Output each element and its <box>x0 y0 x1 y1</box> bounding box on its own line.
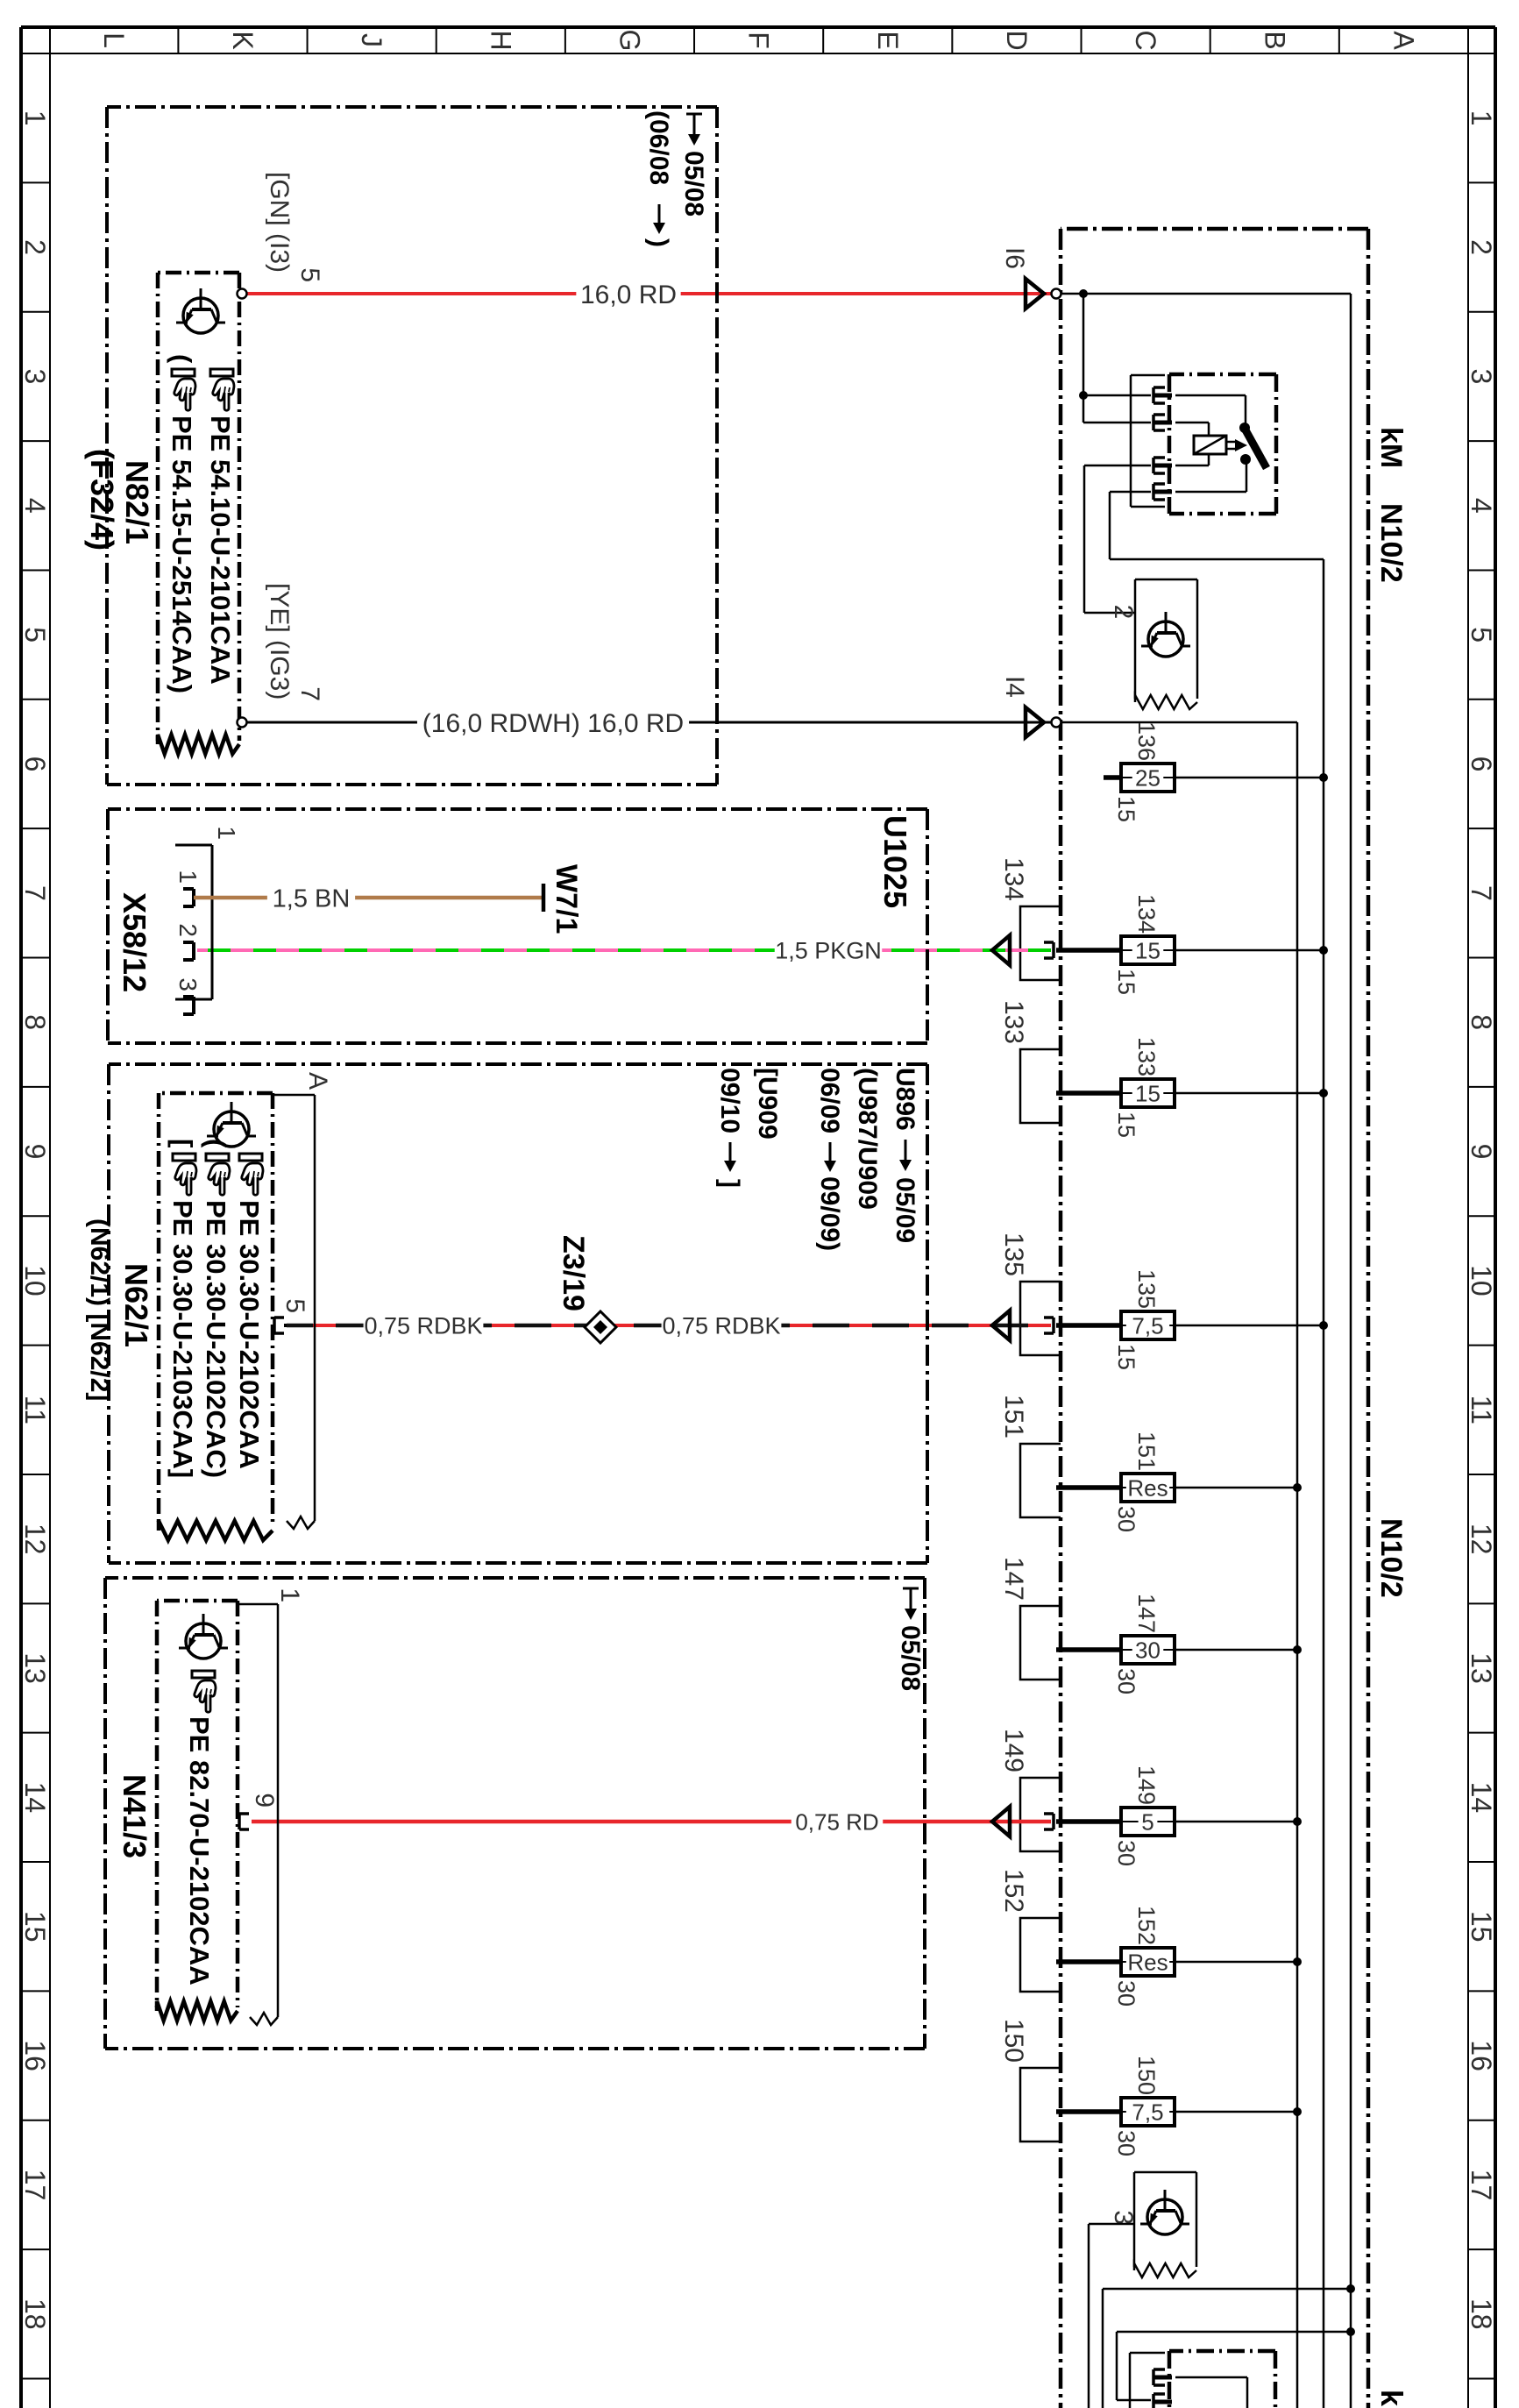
svg-text:(16,0 RDWH) 16,0 RD: (16,0 RDWH) 16,0 RD <box>422 709 684 738</box>
svg-text:30: 30 <box>1113 1668 1139 1694</box>
svg-text:5: 5 <box>1141 1808 1153 1835</box>
svg-text:[U909: [U909 <box>753 1068 782 1140</box>
svg-text:A: A <box>303 1072 332 1090</box>
svg-text:149: 149 <box>1133 1765 1160 1805</box>
svg-text:4: 4 <box>19 498 51 514</box>
svg-text:U1025: U1025 <box>877 815 913 908</box>
svg-text:05/09: 05/09 <box>891 1177 919 1243</box>
svg-text:PE 30.30-U-2102CAA: PE 30.30-U-2102CAA <box>234 1200 265 1469</box>
svg-text:15: 15 <box>1466 1911 1497 1943</box>
svg-text:6: 6 <box>1466 756 1497 772</box>
svg-text:15: 15 <box>1113 1344 1139 1370</box>
svg-text:30: 30 <box>1113 1840 1139 1866</box>
svg-text:PE 30.30-U-2102CAC): PE 30.30-U-2102CAC) <box>201 1200 231 1478</box>
svg-text:1: 1 <box>1466 110 1497 126</box>
svg-text:[YE] (IG3): [YE] (IG3) <box>265 583 294 700</box>
svg-text:14: 14 <box>1466 1782 1497 1814</box>
svg-text:7: 7 <box>295 686 324 701</box>
svg-text:149: 149 <box>999 1729 1028 1772</box>
svg-text:G: G <box>614 30 645 52</box>
svg-text:152: 152 <box>1133 1906 1160 1945</box>
svg-text:5: 5 <box>1466 627 1497 643</box>
svg-text:15: 15 <box>1113 796 1139 822</box>
svg-text:[: [ <box>167 1139 198 1147</box>
svg-text:0,75 RDBK: 0,75 RDBK <box>662 1313 780 1339</box>
svg-text:1: 1 <box>19 110 51 126</box>
svg-text:15: 15 <box>1113 969 1139 995</box>
svg-text:2: 2 <box>174 923 202 937</box>
svg-text:150: 150 <box>1133 2056 1160 2095</box>
svg-text:D: D <box>1001 30 1033 50</box>
svg-text:11: 11 <box>1466 1396 1497 1424</box>
svg-text:2: 2 <box>19 239 51 255</box>
svg-text:18: 18 <box>19 2298 51 2330</box>
svg-text:2: 2 <box>1109 605 1138 620</box>
svg-text:K: K <box>227 31 259 49</box>
svg-text:J: J <box>356 33 387 47</box>
svg-text:6: 6 <box>19 756 51 772</box>
svg-text:1,5 PKGN: 1,5 PKGN <box>775 938 882 964</box>
svg-text:L: L <box>98 32 130 48</box>
svg-text:Res: Res <box>1127 1949 1168 1975</box>
svg-text:5: 5 <box>295 267 324 282</box>
svg-text:09/10: 09/10 <box>715 1068 744 1133</box>
svg-text:15: 15 <box>1113 1112 1139 1138</box>
svg-text:134: 134 <box>1133 894 1160 934</box>
svg-text:PE 54.10-U-2101CAA: PE 54.10-U-2101CAA <box>205 416 236 685</box>
svg-text:8: 8 <box>1466 1014 1497 1030</box>
svg-text:151: 151 <box>999 1395 1028 1438</box>
svg-text:16: 16 <box>19 2040 51 2071</box>
svg-text:18: 18 <box>1466 2298 1497 2330</box>
svg-text:12: 12 <box>1466 1524 1497 1555</box>
svg-text:151: 151 <box>1133 1431 1160 1471</box>
svg-text:05/08: 05/08 <box>896 1625 925 1691</box>
svg-text:5: 5 <box>280 1298 309 1313</box>
svg-text:(U987/U909: (U987/U909 <box>853 1068 882 1210</box>
svg-text:]: ] <box>715 1179 744 1188</box>
svg-text:W7/1: W7/1 <box>550 864 583 934</box>
svg-text:X58/12: X58/12 <box>117 892 153 992</box>
svg-text:1,5 BN: 1,5 BN <box>273 884 351 913</box>
svg-text:4: 4 <box>1466 498 1497 514</box>
svg-text:N82/1: N82/1 <box>119 460 155 544</box>
svg-text:9: 9 <box>1466 1144 1497 1160</box>
svg-text:13: 13 <box>1466 1652 1497 1684</box>
svg-text:136: 136 <box>1133 721 1160 761</box>
svg-text:10: 10 <box>1466 1265 1497 1296</box>
svg-text:11: 11 <box>19 1396 51 1424</box>
svg-text:147: 147 <box>999 1557 1028 1601</box>
svg-text:kM: kM <box>1374 2390 1408 2408</box>
svg-text:06/09: 06/09 <box>815 1068 844 1133</box>
svg-text:C: C <box>1130 30 1161 50</box>
svg-text:8: 8 <box>19 1014 51 1030</box>
svg-text:(N62/1) [N62/2]: (N62/1) [N62/2] <box>85 1218 114 1401</box>
svg-text:09/09): 09/09) <box>815 1176 844 1251</box>
svg-text:B: B <box>1259 31 1290 49</box>
svg-text:PE 54.15-U-2514CAA): PE 54.15-U-2514CAA) <box>167 416 197 693</box>
svg-text:E: E <box>872 31 904 49</box>
svg-text:147: 147 <box>1133 1594 1160 1633</box>
svg-text:0,75 RD: 0,75 RD <box>795 1808 878 1835</box>
svg-text:PE 82.70-U-2102CAA: PE 82.70-U-2102CAA <box>184 1716 215 1985</box>
svg-text:[GN] (I3): [GN] (I3) <box>265 172 294 273</box>
svg-text:15: 15 <box>19 1911 51 1943</box>
svg-text:15: 15 <box>1135 937 1161 963</box>
svg-text:134: 134 <box>999 857 1028 901</box>
svg-text:H: H <box>485 30 516 50</box>
svg-text:I4: I4 <box>1000 676 1029 698</box>
svg-text:(06/08: (06/08 <box>644 110 673 185</box>
svg-text:14: 14 <box>19 1782 51 1814</box>
svg-text:Res: Res <box>1127 1474 1168 1501</box>
svg-text:(: ( <box>167 354 197 364</box>
svg-text:A: A <box>1388 31 1419 50</box>
svg-text:N41/3: N41/3 <box>117 1774 153 1858</box>
svg-text:N62/1: N62/1 <box>118 1263 154 1347</box>
svg-text:1: 1 <box>213 826 240 840</box>
svg-text:135: 135 <box>1133 1269 1160 1309</box>
svg-text:Z3/19: Z3/19 <box>557 1235 590 1311</box>
svg-text:133: 133 <box>1133 1037 1160 1076</box>
svg-text:): ) <box>644 238 673 247</box>
svg-text:152: 152 <box>999 1869 1028 1913</box>
svg-text:3: 3 <box>1109 2210 1138 2225</box>
svg-text:30: 30 <box>1135 1637 1161 1663</box>
svg-text:10: 10 <box>19 1265 51 1296</box>
svg-text:135: 135 <box>999 1232 1028 1276</box>
svg-text:16: 16 <box>1466 2040 1497 2071</box>
svg-text:133: 133 <box>999 1000 1028 1044</box>
svg-text:7: 7 <box>1466 885 1497 901</box>
svg-text:13: 13 <box>19 1652 51 1684</box>
svg-text:PE 30.30-U-2103CAA]: PE 30.30-U-2103CAA] <box>167 1200 198 1478</box>
svg-text:9: 9 <box>250 1793 279 1808</box>
svg-text:F: F <box>743 32 775 49</box>
svg-text:7,5: 7,5 <box>1132 1312 1163 1339</box>
svg-text:U896: U896 <box>891 1068 919 1131</box>
svg-text:5: 5 <box>19 627 51 643</box>
svg-text:17: 17 <box>1466 2170 1497 2201</box>
svg-text:N10/2: N10/2 <box>1374 1518 1408 1598</box>
svg-text:(: ( <box>201 1139 231 1148</box>
svg-text:12: 12 <box>19 1524 51 1555</box>
svg-text:30: 30 <box>1113 1506 1139 1532</box>
svg-text:30: 30 <box>1113 1980 1139 2007</box>
svg-text:25: 25 <box>1135 764 1161 791</box>
svg-text:3: 3 <box>1466 369 1497 385</box>
svg-text:7: 7 <box>19 885 51 901</box>
svg-text:(F32/4): (F32/4) <box>84 449 120 551</box>
svg-text:7,5: 7,5 <box>1132 2099 1163 2125</box>
svg-text:1: 1 <box>174 870 202 884</box>
svg-text:05/08: 05/08 <box>679 151 708 217</box>
svg-text:17: 17 <box>19 2170 51 2201</box>
svg-text:kM: kM <box>1374 427 1408 468</box>
svg-text:1: 1 <box>275 1588 304 1602</box>
svg-text:16,0 RD: 16,0 RD <box>580 281 677 309</box>
svg-text:15: 15 <box>1135 1080 1161 1106</box>
svg-text:30: 30 <box>1113 2130 1139 2156</box>
svg-text:3: 3 <box>19 369 51 385</box>
svg-text:9: 9 <box>19 1144 51 1160</box>
svg-text:3: 3 <box>174 977 202 991</box>
svg-text:150: 150 <box>999 2019 1028 2063</box>
svg-text:2: 2 <box>1466 239 1497 255</box>
svg-text:0,75 RDBK: 0,75 RDBK <box>364 1313 482 1339</box>
svg-text:N10/2: N10/2 <box>1374 503 1408 583</box>
svg-text:I6: I6 <box>1000 247 1029 269</box>
